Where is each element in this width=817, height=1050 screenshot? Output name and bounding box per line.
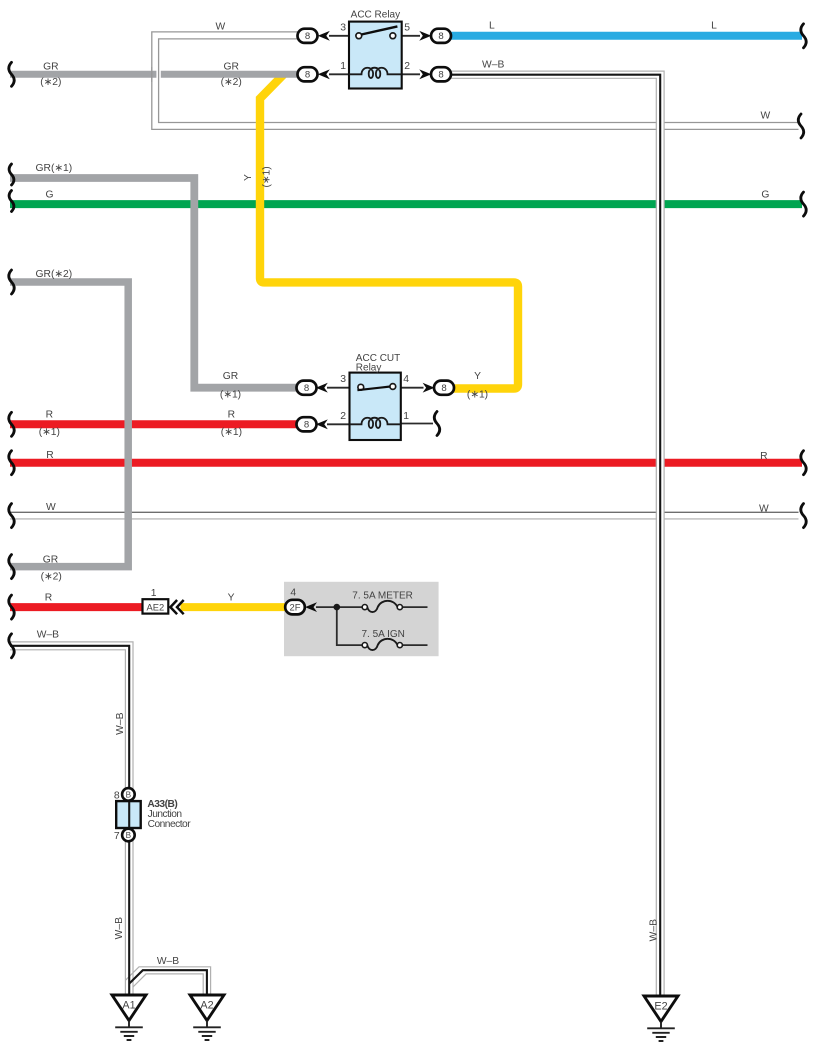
svg-text:R: R (228, 410, 235, 421)
svg-text:4: 4 (403, 374, 409, 385)
svg-text:Relay: Relay (356, 363, 382, 374)
svg-text:3: 3 (340, 23, 346, 34)
svg-text:2: 2 (340, 411, 346, 422)
svg-text:W–B: W–B (157, 956, 179, 967)
svg-text:(∗1): (∗1) (467, 390, 488, 401)
svg-text:R: R (46, 450, 53, 461)
svg-text:8: 8 (441, 383, 446, 394)
svg-text:G: G (45, 189, 53, 200)
svg-text:R: R (46, 410, 53, 421)
svg-text:W: W (215, 22, 225, 33)
svg-text:W–B: W–B (114, 917, 125, 939)
svg-text:7. 5A IGN: 7. 5A IGN (362, 629, 405, 640)
svg-text:GR: GR (223, 61, 238, 72)
svg-text:Y: Y (243, 174, 254, 181)
svg-text:W–B: W–B (482, 60, 504, 71)
svg-text:GR: GR (223, 371, 238, 382)
svg-text:8: 8 (304, 420, 309, 431)
svg-text:Y: Y (228, 592, 235, 603)
svg-text:W: W (761, 111, 771, 122)
svg-text:(∗1): (∗1) (262, 166, 273, 187)
svg-text:8: 8 (438, 31, 443, 42)
svg-text:W–B: W–B (115, 712, 126, 734)
svg-text:G: G (761, 189, 769, 200)
svg-text:(∗1): (∗1) (39, 427, 60, 438)
svg-text:GR(∗1): GR(∗1) (36, 163, 73, 174)
svg-text:Y: Y (474, 371, 481, 382)
svg-text:L: L (489, 21, 495, 32)
svg-text:(∗1): (∗1) (220, 390, 241, 401)
svg-text:8: 8 (114, 790, 120, 801)
svg-text:5: 5 (404, 23, 410, 34)
svg-text:W–B: W–B (37, 630, 59, 641)
svg-text:W–B: W–B (648, 919, 659, 941)
svg-text:2F: 2F (290, 602, 301, 613)
svg-text:W: W (46, 502, 56, 513)
svg-text:(∗2): (∗2) (41, 572, 62, 583)
svg-text:1: 1 (403, 411, 409, 422)
svg-text:AE2: AE2 (147, 602, 165, 613)
svg-text:W: W (759, 504, 769, 515)
svg-text:8: 8 (304, 383, 309, 394)
svg-text:8: 8 (305, 70, 310, 81)
svg-text:ACC Relay: ACC Relay (351, 10, 400, 21)
svg-text:2: 2 (404, 61, 410, 72)
svg-text:8: 8 (305, 31, 310, 42)
svg-text:L: L (711, 21, 717, 32)
svg-text:4: 4 (290, 587, 296, 598)
svg-text:7. 5A METER: 7. 5A METER (352, 590, 413, 601)
svg-text:3: 3 (340, 374, 346, 385)
svg-text:1: 1 (340, 61, 346, 72)
svg-text:7: 7 (114, 831, 120, 842)
svg-text:1: 1 (151, 588, 157, 599)
svg-text:GR(∗2): GR(∗2) (36, 269, 73, 280)
svg-text:(∗2): (∗2) (221, 77, 242, 88)
svg-text:R: R (760, 451, 767, 462)
svg-text:GR: GR (43, 555, 58, 566)
svg-text:A1: A1 (122, 1000, 135, 1012)
svg-text:B: B (126, 791, 132, 800)
svg-text:Connector: Connector (148, 819, 192, 830)
svg-text:(∗2): (∗2) (40, 77, 61, 88)
svg-text:E2: E2 (654, 1001, 667, 1013)
svg-text:B: B (126, 831, 132, 840)
svg-text:A2: A2 (200, 1000, 213, 1012)
svg-text:8: 8 (438, 70, 443, 81)
svg-text:GR: GR (43, 61, 58, 72)
svg-text:R: R (45, 592, 52, 603)
svg-text:(∗1): (∗1) (221, 427, 242, 438)
